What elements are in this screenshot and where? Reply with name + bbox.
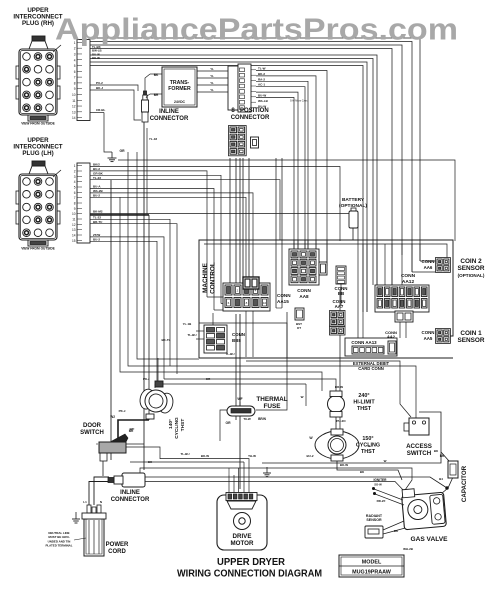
svg-text:8: 8 [74, 81, 76, 85]
svg-text:BU-2: BU-2 [93, 238, 100, 242]
svg-text:CONNECTOR: CONNECTOR [111, 497, 150, 503]
svg-text:CYCLING: CYCLING [356, 443, 380, 449]
svg-text:8: 8 [74, 202, 76, 206]
svg-text:PLATED TERMINAL: PLATED TERMINAL [45, 544, 72, 548]
svg-text:CYCLING: CYCLING [174, 417, 180, 439]
svg-text:24VDC: 24VDC [174, 100, 185, 104]
svg-text:14: 14 [72, 116, 76, 120]
svg-text:CONN: CONN [422, 259, 435, 264]
svg-text:PK-/: PK-/ [143, 377, 149, 381]
svg-text:TL-22: TL-22 [93, 216, 101, 220]
svg-text:AppliancePartsPros.com: AppliancePartsPros.com [55, 13, 458, 47]
svg-text:N: N [100, 500, 102, 504]
svg-text:CONN: CONN [401, 273, 416, 279]
svg-text:6: 6 [74, 191, 76, 195]
svg-text:INLINE: INLINE [120, 490, 140, 496]
svg-text:BU-W: BU-W [258, 94, 266, 98]
svg-text:14: 14 [72, 234, 76, 238]
svg-text:2: 2 [74, 47, 76, 51]
svg-text:RA-2: RA-2 [258, 77, 265, 81]
svg-text:BB8: BB8 [232, 338, 241, 343]
svg-text:S-M Mxxx Cxxx: S-M Mxxx Cxxx [290, 100, 308, 103]
svg-text:4: 4 [74, 58, 76, 62]
svg-text:COIN 1: COIN 1 [460, 330, 482, 337]
svg-text:CONN: CONN [277, 293, 291, 298]
svg-text:CAPACITOR: CAPACITOR [461, 465, 468, 502]
svg-text:BR: BR [154, 93, 159, 97]
svg-text:BATTERY: BATTERY [342, 197, 365, 203]
svg-text:BK-W: BK-W [201, 454, 209, 458]
svg-text:MODEL: MODEL [362, 560, 382, 566]
svg-text:PU-2O: PU-2O [336, 419, 346, 423]
svg-text:13: 13 [72, 110, 76, 114]
svg-text:CONNECTOR: CONNECTOR [150, 116, 189, 122]
svg-text:BU-2: BU-2 [93, 167, 100, 171]
svg-text:INLINE: INLINE [159, 109, 179, 115]
svg-text:(OPTIONAL): (OPTIONAL) [458, 273, 485, 278]
svg-text:1: 1 [74, 164, 76, 168]
svg-text:BR: BR [129, 429, 134, 433]
svg-text:TL-22: TL-22 [93, 176, 101, 180]
svg-text:BR-TU: BR-TU [93, 220, 102, 224]
svg-text:FUSE: FUSE [263, 403, 281, 410]
svg-text:YL: YL [210, 74, 214, 78]
svg-text:MUG19PRAAW: MUG19PRAAW [352, 570, 392, 576]
svg-text:WA-2B: WA-2B [93, 189, 104, 193]
svg-text:SO-W: SO-W [374, 483, 382, 487]
svg-text:150°: 150° [362, 436, 373, 442]
svg-text:13: 13 [72, 228, 76, 232]
svg-text:2: 2 [74, 170, 76, 174]
svg-text:5: 5 [74, 64, 76, 68]
svg-text:PK-J: PK-J [119, 409, 126, 413]
svg-text:UPPER DRYER: UPPER DRYER [217, 556, 285, 568]
svg-text:SWITCH: SWITCH [80, 430, 104, 436]
svg-text:HI-LIMIT: HI-LIMIT [353, 400, 375, 406]
svg-text:THST: THST [361, 449, 376, 455]
svg-text:SWITCH: SWITCH [407, 450, 432, 457]
svg-text:MOTOR: MOTOR [231, 540, 254, 547]
svg-text:POWER: POWER [106, 542, 129, 548]
svg-text:THERMAL: THERMAL [256, 396, 287, 403]
svg-text:BK-W: BK-W [340, 463, 348, 467]
svg-text:PLUG (RH): PLUG (RH) [22, 20, 54, 27]
svg-text:OR: OR [225, 421, 231, 425]
svg-text:MACHINE: MACHINE [202, 262, 209, 293]
svg-text:WIRING CONNECTION DIAGRAM: WIRING CONNECTION DIAGRAM [177, 568, 322, 580]
svg-text:FORMER: FORMER [168, 86, 191, 92]
svg-text:AA12: AA12 [402, 279, 415, 285]
svg-text:WH-2B: WH-2B [403, 547, 414, 551]
svg-text:AA15: AA15 [277, 299, 289, 304]
svg-text:140°: 140° [168, 419, 174, 429]
svg-text:AA7: AA7 [335, 304, 344, 309]
svg-text:SENSOR: SENSOR [458, 265, 485, 272]
svg-text:TH-W: TH-W [248, 454, 256, 458]
svg-text:YL-1B: YL-1B [183, 322, 193, 326]
svg-text:BK-2: BK-2 [258, 72, 265, 76]
svg-text:WA-LB: WA-LB [258, 99, 269, 103]
svg-text:11: 11 [72, 99, 76, 103]
svg-text:W: W [301, 395, 304, 399]
svg-text:OT: OT [297, 326, 301, 330]
svg-text:BR-W: BR-W [335, 385, 343, 389]
svg-text:11: 11 [72, 218, 76, 222]
svg-text:BU-A: BU-A [93, 185, 101, 189]
svg-text:CONN: CONN [422, 330, 435, 335]
svg-text:DRIVE: DRIVE [233, 533, 252, 540]
svg-text:TL-W: TL-W [258, 67, 266, 71]
svg-text:BU-2: BU-2 [93, 194, 100, 198]
svg-text:W: W [384, 459, 387, 463]
svg-text:12: 12 [72, 223, 76, 227]
svg-text:BU-2: BU-2 [306, 454, 313, 458]
svg-text:2T/W: 2T/W [93, 233, 100, 237]
svg-text:CONNECTOR: CONNECTOR [231, 115, 270, 121]
svg-text:AA8: AA8 [299, 294, 309, 299]
svg-text:L1: L1 [83, 500, 87, 504]
svg-text:GR-BK: GR-BK [93, 172, 104, 176]
svg-text:SENSOR: SENSOR [458, 337, 485, 344]
svg-text:10: 10 [263, 301, 267, 305]
svg-text:TL-BU: TL-BU [181, 452, 190, 456]
svg-text:8 - POSITION: 8 - POSITION [231, 108, 268, 114]
svg-text:BR/N: BR/N [258, 417, 266, 421]
svg-text:9: 9 [74, 207, 76, 211]
svg-text:VIEW FROM OUTSIDE: VIEW FROM OUTSIDE [21, 247, 54, 251]
svg-text:YL: YL [210, 81, 214, 85]
svg-text:CONN: CONN [232, 332, 245, 337]
svg-text:YL-18: YL-18 [149, 137, 158, 141]
svg-text:BK-M2: BK-M2 [93, 210, 103, 214]
svg-text:AA6: AA6 [424, 265, 433, 270]
svg-text:BK-J: BK-J [96, 86, 103, 90]
svg-text:ACCESS: ACCESS [406, 443, 432, 450]
svg-text:3: 3 [74, 175, 76, 179]
svg-text:GAS VALVE: GAS VALVE [410, 536, 448, 543]
svg-text:BK-W: BK-W [92, 56, 100, 60]
svg-text:240°: 240° [358, 393, 369, 399]
svg-text:TL-BU: TL-BU [188, 333, 197, 337]
svg-text:AC-1: AC-1 [258, 83, 265, 87]
svg-text:6: 6 [74, 70, 76, 74]
svg-text:BK/2: BK/2 [93, 163, 100, 167]
svg-text:GR: GR [119, 149, 125, 153]
svg-text:B4: B4 [439, 477, 443, 481]
svg-text:COIN 2: COIN 2 [460, 258, 482, 265]
svg-text:AA2: AA2 [387, 334, 396, 339]
svg-text:SENSOR: SENSOR [366, 518, 382, 522]
svg-text:BK: BK [154, 73, 159, 77]
svg-text:T9-W: T9-W [243, 417, 251, 421]
svg-text:CARD CONN: CARD CONN [358, 366, 384, 371]
svg-text:BU-W: BU-W [258, 104, 266, 108]
svg-text:YL: YL [210, 67, 214, 71]
svg-text:WF: WF [237, 397, 242, 401]
svg-text:CR-BL: CR-BL [96, 108, 105, 112]
svg-text:7: 7 [74, 196, 76, 200]
svg-text:BK-TL: BK-TL [162, 338, 171, 342]
svg-text:4: 4 [74, 180, 76, 184]
svg-text:15: 15 [72, 239, 76, 243]
svg-text:DOOR: DOOR [83, 423, 102, 429]
svg-text:CONN: CONN [297, 288, 311, 293]
svg-text:PU-2: PU-2 [96, 81, 103, 85]
svg-text:12: 12 [72, 105, 76, 109]
svg-text:CONTROL: CONTROL [210, 262, 217, 294]
svg-text:THST: THST [180, 419, 186, 432]
svg-text:CORD: CORD [108, 549, 126, 555]
svg-text:RD-2F: RD-2F [377, 499, 386, 503]
svg-text:10: 10 [72, 93, 76, 97]
svg-text:BK: BK [440, 454, 445, 458]
svg-text:THST: THST [357, 406, 372, 412]
svg-text:3: 3 [74, 52, 76, 56]
svg-text:AA5: AA5 [424, 336, 433, 341]
svg-text:7: 7 [74, 76, 76, 80]
svg-text:VIEW FROM OUTSIDE: VIEW FROM OUTSIDE [21, 122, 54, 126]
svg-text:CONN AA13: CONN AA13 [351, 340, 377, 345]
svg-text:9: 9 [74, 87, 76, 91]
svg-text:BB: BB [338, 291, 344, 296]
svg-text:10: 10 [72, 212, 76, 216]
svg-text:IGNITER: IGNITER [374, 478, 388, 482]
svg-text:PLUG (LH): PLUG (LH) [22, 150, 53, 157]
svg-text:YL: YL [210, 88, 214, 92]
svg-text:5: 5 [74, 186, 76, 190]
